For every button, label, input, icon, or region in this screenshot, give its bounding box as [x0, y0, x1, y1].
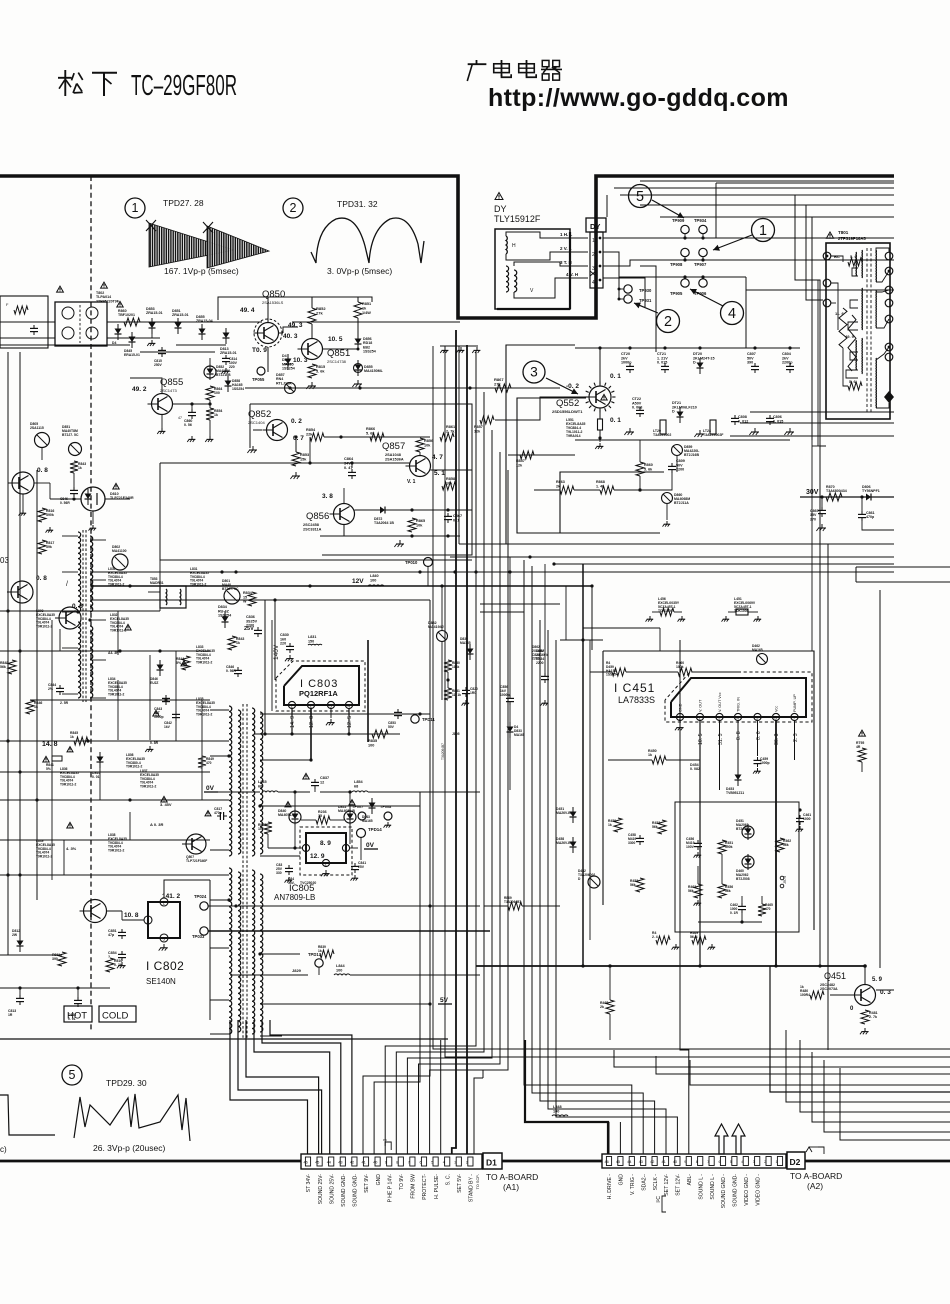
resistor R802: [839, 308, 847, 348]
diode D843: [369, 803, 376, 809]
cap C853: [397, 709, 399, 712]
svg-text:SOUND GND-: SOUND GND-: [733, 1174, 739, 1207]
wire: drop to D1 pin40: [374, 792, 420, 1154]
ground q803 area: [49, 527, 51, 530]
svg-text:D4: D4: [112, 341, 116, 345]
led D859: [672, 445, 683, 456]
svg-text:R858: R858: [446, 477, 455, 481]
svg-text:DY: DY: [590, 222, 600, 231]
svg-text:TP934: TP934: [694, 218, 707, 223]
svg-text:25V: 25V: [358, 865, 365, 869]
wire: y290 short: [746, 289, 894, 291]
wire: right exit y1067: [614, 1050, 950, 1067]
text: site 电 glyph 1: [501, 60, 503, 76]
svg-text:T3A2064B7: T3A2064B7: [441, 743, 445, 760]
resistor R472: [606, 1000, 614, 1014]
svg-text:8: 8: [396, 1161, 398, 1165]
wire: y792 rail: [218, 791, 260, 793]
svg-text:0. 068: 0. 068: [632, 406, 642, 410]
diode D855b: [199, 329, 206, 335]
wire: left rails 1: [0, 610, 160, 612]
diode D840 led: [289, 811, 301, 823]
svg-text:1: 1: [592, 238, 595, 244]
ground IC803 pin3: [330, 719, 332, 723]
pin T801-right-2: [885, 267, 893, 275]
pin IC451-3: [716, 713, 723, 720]
wire: T803 taps left: [210, 709, 229, 711]
diode D812: [17, 941, 24, 947]
diode D850: [285, 359, 292, 365]
svg-text:0. 56: 0. 56: [184, 423, 192, 427]
svg-text:5: 5: [431, 1161, 433, 1165]
cap C842: [175, 711, 177, 714]
diode D830: [467, 649, 474, 655]
waveform W2 parabola arcs: [311, 218, 424, 263]
transformer T801 tertiary winding: [855, 252, 857, 276]
test point TP909: [681, 225, 689, 233]
svg-text:39k: 39k: [46, 545, 52, 549]
svg-text:TVC25020: TVC25020: [300, 881, 316, 885]
svg-text:Q855: Q855: [160, 377, 183, 388]
arrow: D2 signal up arrow 2: [732, 1124, 745, 1154]
wire: trunk centre x508: [430, 470, 508, 1154]
wire: x590 vertical: [589, 640, 591, 940]
svg-text:TPD14: TPD14: [368, 827, 382, 832]
wire: Q552 row2: [575, 439, 790, 441]
resistor R836: [316, 816, 330, 824]
wire: right trunk x820: [819, 446, 821, 966]
svg-text:T9R1011-2: T9R1011-2: [196, 661, 212, 665]
svg-text:TLY15912F: TLY15912F: [494, 214, 541, 224]
svg-text:J805: J805: [452, 732, 460, 736]
wire: bus y564 right: [554, 563, 894, 565]
resistor R866: [370, 433, 384, 441]
wire: bus y205: [640, 204, 894, 206]
wire: Q552 emitter chain: [599, 408, 601, 419]
svg-text:0. 01: 0. 01: [92, 775, 100, 779]
wire: x545 drop: [544, 564, 546, 673]
transistor Q451: [855, 985, 876, 1006]
svg-text:BT2J16B: BT2J16B: [216, 373, 231, 377]
cap C807: [754, 363, 756, 366]
svg-text:44: 44: [627, 1160, 631, 1164]
ground Q552 emitter: [599, 443, 601, 446]
connector DY pin strip: [590, 232, 603, 288]
wire: stair left x246: [246, 1020, 319, 1154]
svg-text:5V: 5V: [440, 997, 449, 1004]
cap C869: [821, 507, 823, 510]
svg-text:2: 2: [592, 252, 595, 258]
connector D2 pin 8: [698, 1157, 703, 1166]
connector D2 pin 41: [663, 1157, 668, 1166]
wire: stair left x262: [262, 1020, 341, 1154]
wire: T803 tap run y806: [282, 805, 420, 807]
svg-text:V. OUT: V. OUT: [699, 699, 703, 712]
svg-text:1SS254: 1SS254: [218, 614, 232, 618]
transformer T801 secondary winding 2: [875, 290, 877, 328]
svg-text:A4. 3R: A4. 3R: [108, 651, 119, 655]
wire: below T801 y436: [730, 435, 894, 437]
wire: left rail y772b: [140, 771, 210, 773]
svg-text:5%: 5%: [176, 661, 182, 665]
cap CT21: [664, 363, 666, 366]
svg-text:470p: 470p: [214, 811, 222, 815]
svg-text:390k: 390k: [725, 845, 733, 849]
transformer T801 core dashed: [866, 248, 868, 414]
connector D1 pin 8: [398, 1157, 403, 1166]
resistor R458: [614, 818, 622, 832]
svg-text:4R: 4R: [856, 745, 861, 749]
svg-text:1: 1: [132, 201, 139, 215]
svg-text:4: 4: [728, 306, 736, 322]
svg-text:6: 6: [719, 1160, 721, 1164]
svg-text:49. 2: 49. 2: [132, 386, 147, 393]
pin IC803-4: [345, 701, 352, 708]
wire: trunk thick x467: [466, 345, 468, 1154]
wire: trunk centre x476: [385, 352, 476, 1154]
svg-text:RTLJ18A: RTLJ18A: [276, 381, 292, 385]
transformer T851 winding right: [90, 536, 93, 612]
cap C456: [697, 840, 699, 843]
box: IC451 lower subsection: [675, 802, 799, 932]
svg-text:R861: R861: [446, 425, 455, 429]
svg-text:2SC3311A: 2SC3311A: [303, 527, 322, 531]
svg-text:1SS254: 1SS254: [282, 367, 295, 371]
wire: trunk centre x484: [396, 392, 484, 1154]
wire: rail y250 stub: [603, 251, 612, 253]
svg-text:2: 2: [764, 1160, 766, 1164]
svg-text:TLP721F340F: TLP721F340F: [186, 859, 207, 863]
svg-text:56k: 56k: [630, 883, 636, 887]
wire: yoke internal 2: [506, 252, 588, 260]
wire: 12V bus y586: [92, 585, 592, 587]
svg-text:P HE P 14V-: P HE P 14V-: [387, 1174, 393, 1203]
svg-text:15k: 15k: [300, 457, 307, 461]
connector D1 pin 45: [317, 1157, 322, 1166]
svg-text:2. 3: 2. 3: [793, 733, 799, 742]
wire: x818 vertical: [817, 280, 819, 446]
svg-text:35V-: 35V-: [288, 881, 295, 885]
ground IC451 pin1: [679, 724, 681, 728]
warning triangle T801: [826, 232, 833, 238]
wire: drop to D1 pin1: [474, 1078, 483, 1154]
wire: left vertical x120: [119, 570, 121, 611]
svg-text:44: 44: [327, 1161, 331, 1165]
svg-text:TPD27. 28: TPD27. 28: [163, 198, 204, 208]
resistor R459: [612, 668, 626, 676]
resistor R852: [308, 308, 316, 324]
svg-text:1k: 1k: [318, 949, 322, 953]
wire: right exit y1122: [812, 1052, 950, 1122]
svg-text:3. 0Vp-p (5msec): 3. 0Vp-p (5msec): [327, 266, 392, 276]
cap C846b: [73, 487, 75, 490]
wire: r830 chain: [447, 645, 449, 660]
svg-text:MA26V-B: MA26V-B: [556, 811, 571, 815]
wire: stair left x238: [238, 1020, 322, 1154]
svg-text:1kV: 1kV: [164, 725, 171, 729]
resistor R816: [38, 508, 46, 522]
svg-text:MA165: MA165: [752, 648, 763, 652]
wire: y906 ext: [484, 905, 508, 907]
svg-text:5. 6k: 5. 6k: [644, 467, 653, 471]
svg-text:470p: 470p: [866, 515, 875, 519]
resistor R864b: [206, 386, 214, 400]
resistor R856: [416, 438, 424, 452]
wire: Q552 collector top: [600, 348, 645, 386]
svg-text:3 T. H: 3 T. H: [560, 260, 572, 265]
transformer T801 secondary winding 3: [875, 358, 877, 408]
wire: right exit y1112: [800, 1040, 950, 1112]
svg-text:11. 6: 11. 6: [835, 311, 844, 316]
pin IC803-2: [307, 701, 314, 708]
diode D856c: [129, 337, 136, 343]
ground D2 right: [806, 1147, 812, 1152]
svg-text:8: 8: [696, 1160, 698, 1164]
resistor R858: [442, 482, 456, 490]
wire: x210 880 drop: [209, 880, 211, 1020]
wire: y388 rail: [245, 387, 560, 389]
connector D2 strip: [602, 1154, 786, 1168]
wire: IC451 left risers: [608, 759, 652, 761]
ground q855 a: [161, 428, 163, 431]
svg-text:T9RA014: T9RA014: [566, 434, 581, 438]
svg-text:47p: 47p: [108, 933, 115, 937]
svg-text:4: 4: [443, 1161, 445, 1165]
svg-text:Vcc: Vcc: [775, 706, 779, 712]
wire: T801 winding taps right: [852, 268, 858, 276]
cap C808: [734, 415, 736, 418]
svg-text:TDK1005: TDK1005: [734, 609, 749, 613]
wire: stair left x230: [230, 1020, 308, 1154]
transformer T803 winding col2b: [260, 712, 263, 854]
resistor R454b: [699, 768, 701, 776]
wire: trunk D2 x556: [556, 640, 677, 1154]
cap C830: [289, 643, 291, 646]
wire: left rail y875b: [210, 874, 229, 876]
coil L854: [352, 791, 368, 792]
wire: IC803 left verticals: [264, 600, 266, 734]
cap C462: [741, 903, 743, 906]
wire: left vertical x52: [51, 620, 53, 880]
svg-text:H. DRIVE -: H. DRIVE -: [607, 1174, 613, 1199]
diode D462 led: [757, 654, 768, 665]
resistor R810: [106, 958, 114, 972]
wire: 30v drop: [821, 497, 823, 507]
connector D2 pin 6: [720, 1157, 725, 1166]
svg-text:3: 3: [530, 365, 538, 380]
pin T801-right-4: [885, 299, 893, 307]
text: site 电 glyph 2: [526, 60, 528, 76]
connector D2 pin 40: [675, 1157, 680, 1166]
svg-text:1k: 1k: [78, 466, 82, 470]
warning triangle DY: [495, 193, 503, 200]
svg-text:3: 3: [454, 1161, 456, 1165]
svg-text:PROTECT-: PROTECT-: [422, 1174, 428, 1200]
wire: q803 links: [34, 482, 50, 484]
transformer T853 small: [160, 586, 186, 608]
label: circled 1 with arrow: [752, 219, 775, 242]
svg-text:43: 43: [639, 1160, 643, 1164]
led D860: [662, 493, 673, 504]
svg-text:TP930: TP930: [639, 288, 652, 293]
resistor R452: [636, 878, 644, 892]
connector D1 pin 9: [387, 1157, 392, 1166]
wire: bus y544: [478, 543, 894, 545]
svg-text:0V: 0V: [206, 785, 215, 792]
svg-text:2. 7k: 2. 7k: [869, 1015, 877, 1019]
svg-text:45: 45: [616, 1160, 620, 1164]
test point TP908: [681, 248, 689, 256]
wire: yoke internal 1: [506, 232, 588, 238]
svg-text:2SC2458: 2SC2458: [303, 523, 319, 527]
svg-text:11. 1k: 11. 1k: [452, 693, 461, 697]
svg-text:15: 15: [318, 814, 322, 818]
svg-text:Q552: Q552: [556, 398, 579, 409]
svg-text:0. 015: 0. 015: [773, 419, 783, 423]
wire: x236 vertical: [235, 906, 237, 1020]
text: site 器 glyph: [542, 60, 549, 66]
svg-text:10. 3: 10. 3: [293, 357, 308, 364]
svg-text:MA165: MA165: [362, 819, 373, 823]
diode D844: [97, 757, 104, 763]
svg-text:Q856: Q856: [306, 511, 329, 522]
waveform W1 sawtooth triangle b: [207, 226, 269, 268]
svg-text:STAND BY -: STAND BY -: [469, 1174, 475, 1202]
svg-text:27k: 27k: [494, 382, 501, 387]
wire: bus vertical x607: [606, 195, 608, 217]
wire: T803 tap run y954: [282, 953, 300, 955]
wire: bus y177: [640, 180, 894, 182]
label: circled 2 (top-left): [283, 198, 303, 218]
wire: bottom chassis bus: [0, 1160, 950, 1163]
svg-text:0. 7: 0. 7: [293, 435, 304, 442]
test point TP024: [200, 902, 208, 910]
svg-text:4: 4: [592, 280, 595, 286]
svg-text:12: 12: [320, 780, 324, 784]
transistor Q857: [410, 456, 431, 477]
svg-text:100V: 100V: [686, 845, 695, 849]
svg-text:5: 5: [636, 189, 644, 205]
connector D1 pin 7: [410, 1157, 415, 1166]
resistor R481: [861, 1010, 869, 1024]
wire: corner riser x716: [715, 183, 717, 238]
svg-text:42: 42: [350, 1161, 354, 1165]
svg-text:D2: D2: [790, 1157, 801, 1167]
cap C838b: [288, 865, 290, 868]
wire: ic802 right rails: [184, 910, 480, 912]
connector D1 pin 42: [352, 1157, 357, 1166]
diode D855 led: [354, 364, 363, 373]
svg-text:1000p: 1000p: [621, 361, 632, 365]
diode D856: [355, 339, 362, 345]
svg-text:SET 5V-: SET 5V-: [457, 1174, 463, 1193]
svg-text:2SA1048: 2SA1048: [385, 453, 401, 457]
wire: trunk D2 x548: [548, 630, 666, 1154]
resistor R869: [508, 902, 522, 910]
wire: trunk centre x500: [419, 452, 501, 1154]
svg-text:T9R1011-2: T9R1011-2: [196, 713, 212, 717]
svg-text:TP024: TP024: [194, 894, 207, 899]
wire: y446 link: [812, 445, 818, 447]
svg-text:L848: L848: [553, 1105, 562, 1109]
test point TP907: [699, 248, 707, 256]
wire: T803 tap run y906: [282, 905, 430, 907]
warning left1b: [125, 624, 131, 630]
diode D461 led: [742, 826, 754, 838]
wire: stair left x254: [254, 1020, 330, 1154]
svg-text:1SS254: 1SS254: [363, 350, 376, 354]
svg-text:5%: 5%: [46, 767, 51, 771]
resistor jumper pin9: [385, 1142, 391, 1150]
svg-text:2SA1115: 2SA1115: [30, 426, 44, 430]
svg-text:T9R1011-2: T9R1011-2: [140, 785, 156, 789]
ground R463: [697, 900, 699, 903]
coil L831: [308, 643, 322, 646]
wire: y612 run: [480, 611, 524, 613]
wire: DY pin4 bus: [603, 278, 645, 307]
svg-text:Q851: Q851: [327, 348, 350, 359]
box: IC451 section outline: [603, 651, 814, 930]
transformer T803 winding col1: [229, 706, 232, 856]
wire: T803 tap run y714: [282, 713, 430, 715]
svg-text:LA7833S: LA7833S: [618, 695, 655, 705]
cap C856: [509, 695, 511, 698]
svg-text:12. 9: 12. 9: [310, 853, 325, 860]
svg-text:GND: GND: [376, 1174, 382, 1186]
wire: y628 into IC451: [583, 627, 660, 629]
svg-text:390: 390: [747, 361, 753, 365]
svg-text:0. 8R: 0. 8R: [150, 741, 159, 745]
test point TP055: [257, 367, 265, 375]
transistor Q552 dashed ring: [586, 383, 614, 411]
resistor R803: [848, 315, 856, 371]
svg-text:SDA2--: SDA2--: [641, 1174, 647, 1191]
resistor R844: [182, 656, 190, 670]
cap C837: [314, 779, 316, 782]
wire: left rails 2: [117, 611, 119, 655]
svg-text:10. 8: 10. 8: [124, 912, 139, 919]
wire: IC803 y734 rail: [255, 733, 400, 735]
wire: right exit y1057: [445, 1040, 950, 1057]
wire: right exit y1049: [433, 1040, 950, 1049]
wire: right trunk x880: [879, 590, 881, 968]
svg-text:SOUND 25V-: SOUND 25V-: [318, 1174, 324, 1205]
diode D801 led: [224, 588, 240, 604]
wire: riser x806: [806, 205, 823, 300]
resistor R865: [408, 518, 416, 532]
svg-text:1: 1: [776, 1160, 778, 1164]
wire: q855 top: [130, 378, 162, 394]
cap C459: [757, 757, 759, 760]
wire: x442 drop: [441, 586, 443, 630]
svg-text:T9R1011-2: T9R1011-2: [60, 783, 76, 787]
wire: DY pin3 bus: [640, 266, 656, 352]
svg-text:56k: 56k: [725, 889, 731, 893]
box: Q552 section outer: [506, 345, 575, 544]
wire: Q552 base left: [495, 397, 589, 420]
svg-text:2SA1536LS: 2SA1536LS: [262, 300, 284, 305]
svg-text:TP010: TP010: [405, 560, 418, 565]
text: brand 下 glyph: [92, 72, 117, 74]
wire: bus y195: [620, 194, 894, 196]
pin T801-right-8: [884, 391, 894, 403]
box: Q85x stage outline: [250, 404, 472, 555]
wire: trunk D2 x524: [524, 560, 632, 1154]
transformer T851 core: [82, 530, 84, 702]
svg-text:COLD: COLD: [102, 1011, 129, 1022]
diode D458: [570, 842, 577, 848]
cap C815: [161, 347, 163, 350]
